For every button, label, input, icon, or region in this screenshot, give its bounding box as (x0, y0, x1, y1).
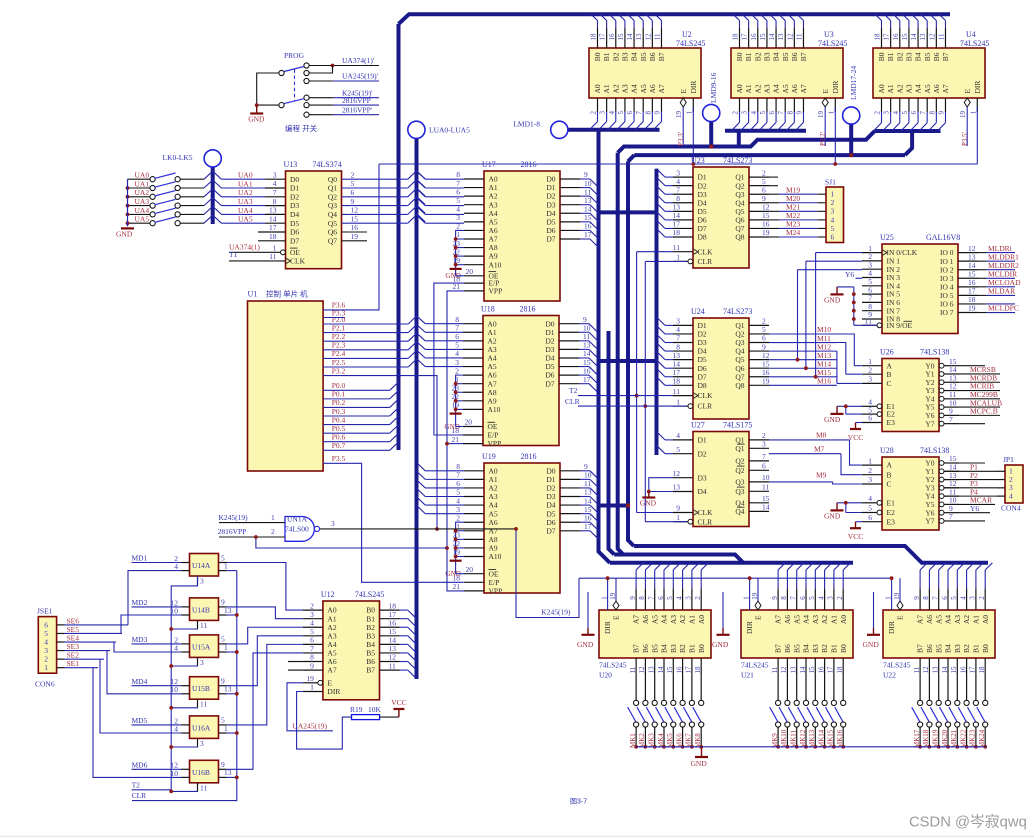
svg-text:2816VPP': 2816VPP' (342, 106, 373, 115)
svg-text:A0: A0 (593, 84, 602, 93)
svg-text:14: 14 (626, 33, 634, 41)
svg-text:19: 19 (968, 304, 976, 313)
bus: sweep bottom to U20/U21 (610, 561, 853, 565)
svg-text:15: 15 (666, 666, 674, 674)
svg-text:Q2: Q2 (735, 466, 744, 475)
svg-text:U15B: U15B (192, 684, 210, 693)
svg-text:6: 6 (831, 232, 835, 241)
svg-text:74LS245: 74LS245 (599, 661, 627, 670)
svg-text:C: C (887, 379, 892, 388)
bus: U23/U24/U27 data fan vertical (655, 169, 659, 455)
svg-text:B4: B4 (944, 644, 953, 653)
svg-text:3: 3 (969, 596, 977, 600)
svg-text:CLK: CLK (290, 257, 306, 266)
svg-text:18: 18 (978, 666, 986, 674)
svg-text:A2: A2 (753, 84, 762, 93)
pin stubs D6 D7 of U13 (258, 231, 286, 233)
bus: V2 vertical (U18 data) (609, 331, 615, 555)
bus: LMD9-16 drop (709, 121, 713, 147)
node LMD1-8 (551, 121, 568, 138)
svg-text:UA1: UA1 (135, 179, 150, 188)
svg-text:19: 19 (609, 592, 617, 600)
svg-text:MK10: MK10 (780, 729, 788, 748)
svg-text:21: 21 (452, 435, 460, 444)
flip-flop U14A (174, 553, 228, 585)
svg-text:LK0-LK5: LK0-LK5 (163, 153, 193, 162)
svg-text:12: 12 (780, 666, 788, 674)
wires P0.0-P0.7 into P0 bus (323, 389, 390, 391)
svg-text:11: 11 (200, 700, 207, 709)
svg-text:MK23: MK23 (969, 729, 977, 748)
svg-text:R19: R19 (350, 705, 363, 714)
memory U18 2816 (452, 305, 591, 449)
svg-text:74LS245: 74LS245 (355, 590, 384, 599)
svg-text:74LS175: 74LS175 (723, 421, 752, 430)
svg-text:6: 6 (657, 596, 665, 600)
svg-text:14: 14 (269, 214, 277, 223)
bus: vertical P0 data bus (left) (397, 24, 401, 450)
svg-text:PROG: PROG (284, 51, 305, 60)
svg-text:Q3: Q3 (735, 487, 744, 496)
bus: LUA address bus vertical (415, 138, 419, 679)
svg-text:13: 13 (269, 206, 277, 215)
svg-text:18: 18 (590, 33, 598, 41)
transceiver U3 74LS245 (731, 14, 843, 146)
svg-text:MK19: MK19 (932, 729, 940, 748)
svg-text:U25: U25 (880, 233, 894, 242)
svg-text:MK17: MK17 (913, 729, 921, 748)
svg-text:E: E (963, 89, 972, 94)
svg-text:U14A: U14A (192, 561, 211, 570)
svg-text:A10: A10 (489, 552, 502, 561)
svg-text:A6: A6 (932, 84, 941, 93)
svg-text:D7: D7 (545, 379, 554, 388)
svg-text:7: 7 (635, 111, 643, 115)
svg-text:U19: U19 (482, 452, 496, 461)
svg-text:B3: B3 (811, 644, 820, 653)
svg-text:8: 8 (273, 197, 277, 206)
svg-text:7: 7 (949, 512, 953, 521)
svg-text:2: 2 (874, 111, 882, 115)
svg-text:19: 19 (306, 674, 314, 683)
bus: tie LMD1-8 to U23 fan (599, 210, 657, 214)
svg-text:A7: A7 (632, 615, 641, 624)
svg-text:3: 3 (200, 658, 204, 667)
svg-text:A6: A6 (783, 615, 792, 624)
wires: SE lines up to flip-flop preset pins (128, 571, 182, 625)
svg-text:VPP: VPP (489, 587, 503, 596)
svg-text:B6: B6 (932, 52, 941, 61)
svg-text:UA4: UA4 (135, 206, 150, 215)
svg-text:Y7: Y7 (925, 419, 934, 428)
svg-text:3: 3 (762, 440, 766, 449)
svg-text:GND: GND (577, 640, 594, 649)
svg-text:5: 5 (759, 111, 767, 115)
svg-text:LMD17-24: LMD17-24 (849, 66, 858, 100)
svg-text:4: 4 (675, 596, 683, 600)
svg-text:3: 3 (599, 111, 607, 115)
svg-text:P3.3': P3.3' (677, 132, 685, 146)
svg-text:CLR: CLR (698, 402, 713, 411)
svg-text:D4: D4 (698, 487, 707, 496)
wires: U4 A pins to LMD17-24 bus (881, 112, 883, 123)
svg-text:DIR: DIR (327, 687, 340, 696)
svg-text:U2: U2 (682, 30, 692, 39)
svg-text:MK2: MK2 (638, 733, 646, 748)
svg-text:UA2: UA2 (238, 188, 253, 197)
svg-text:GND: GND (248, 115, 265, 124)
svg-text:DIR: DIR (973, 81, 982, 94)
svg-text:MK8: MK8 (694, 733, 702, 748)
wire: 2816VPP net to VPP chain (256, 538, 447, 548)
svg-text:4: 4 (676, 431, 680, 440)
svg-text:7: 7 (762, 452, 766, 461)
svg-text:74LS273: 74LS273 (723, 307, 752, 316)
svg-text:3: 3 (331, 519, 335, 528)
svg-text:E1: E1 (887, 498, 896, 507)
svg-text:DIR: DIR (603, 621, 612, 634)
svg-text:MK11: MK11 (790, 729, 798, 748)
svg-text:UA245(19): UA245(19) (292, 721, 327, 730)
svg-text:11: 11 (937, 33, 945, 40)
node LUA0-LUA5 (408, 121, 425, 138)
svg-text:A6: A6 (641, 615, 650, 624)
wires: U25 IO outputs with red labels (978, 252, 986, 254)
svg-text:A10: A10 (489, 260, 502, 269)
ground at U27 D4 (648, 492, 650, 498)
svg-text:A3: A3 (953, 615, 962, 624)
svg-text:74LS245: 74LS245 (960, 39, 989, 48)
bus: U4 drop to LMD17-24 bus (905, 131, 912, 155)
svg-text:B4: B4 (802, 644, 811, 653)
svg-text:11: 11 (913, 666, 921, 673)
svg-text:A3: A3 (811, 615, 820, 624)
bus: LK switch bus vertical (211, 166, 215, 224)
svg-text:B4: B4 (914, 52, 923, 61)
svg-text:2816VPP: 2816VPP (342, 96, 371, 105)
wire: K245 net along U20 U21 U22 E/DIR (579, 577, 892, 579)
svg-text:MCLDPC: MCLDPC (988, 304, 1019, 313)
svg-text:B: B (887, 470, 892, 479)
svg-text:15: 15 (759, 33, 767, 41)
svg-text:GND: GND (691, 759, 708, 768)
wire P3.6 to DIR net (323, 164, 379, 310)
svg-text:U1: U1 (248, 290, 258, 299)
svg-text:74LS138: 74LS138 (920, 446, 949, 455)
svg-text:11: 11 (200, 783, 207, 792)
svg-text:Q6: Q6 (328, 228, 337, 237)
svg-text:GND: GND (640, 499, 657, 508)
svg-text:D7: D7 (546, 526, 555, 535)
svg-text:3: 3 (883, 111, 891, 115)
svg-text:P3.5': P3.5' (961, 132, 969, 146)
svg-text:6: 6 (799, 596, 807, 600)
svg-text:M16: M16 (817, 377, 831, 386)
svg-text:GND: GND (712, 640, 729, 649)
svg-text:MK7: MK7 (685, 733, 693, 748)
svg-text:DIR: DIR (831, 81, 840, 94)
svg-text:15: 15 (901, 33, 909, 41)
svg-text:2816: 2816 (520, 160, 536, 169)
svg-text:CSDN @岑寂qwq: CSDN @岑寂qwq (909, 814, 1027, 831)
svg-text:17: 17 (741, 33, 749, 41)
svg-text:A7: A7 (327, 666, 336, 675)
svg-text:74LS374: 74LS374 (312, 160, 341, 169)
svg-text:3: 3 (868, 375, 872, 384)
wire: DIR net P3.6 long horizontal (379, 163, 978, 165)
wires: U25 IN0-IN2 from M13 M14 M15 (816, 252, 862, 254)
svg-text:8: 8 (638, 596, 646, 600)
svg-text:B1: B1 (972, 644, 981, 653)
bus: V3 vertical (628, 155, 634, 161)
wire: U12 E to UA245 label (287, 683, 333, 731)
svg-text:E: E (896, 615, 905, 620)
svg-text:U16A: U16A (192, 723, 211, 732)
svg-text:7: 7 (919, 111, 927, 115)
svg-text:14: 14 (910, 33, 918, 41)
ground at LK bank (121, 227, 134, 229)
T2 clock chain for flip-flops (132, 576, 198, 790)
svg-text:2: 2 (978, 596, 986, 600)
svg-text:OE: OE (488, 422, 498, 431)
svg-text:19: 19 (817, 111, 825, 119)
svg-text:A6: A6 (790, 84, 799, 93)
svg-text:19: 19 (959, 111, 967, 119)
svg-text:U4: U4 (966, 30, 976, 39)
wire: UN1A output K245(19)-prime net (320, 528, 516, 530)
svg-text:MK4: MK4 (657, 733, 665, 748)
svg-text:15: 15 (808, 666, 816, 674)
bus: sweep top to U22 (634, 546, 988, 563)
wires: U3 A pins to LMD9-16 bus (739, 112, 741, 122)
svg-text:2816VPP: 2816VPP (218, 527, 247, 536)
svg-text:74LS273: 74LS273 (723, 156, 752, 165)
svg-text:MD5: MD5 (132, 716, 148, 725)
svg-text:B6: B6 (925, 644, 934, 653)
svg-text:4: 4 (892, 111, 900, 115)
svg-text:74LS245: 74LS245 (676, 39, 705, 48)
svg-text:7: 7 (790, 596, 798, 600)
svg-text:MK3: MK3 (648, 733, 656, 748)
svg-text:11: 11 (771, 666, 779, 673)
wire: CLK chain vertical T2 net (636, 252, 638, 513)
svg-text:B2: B2 (962, 644, 971, 653)
svg-text:E: E (754, 615, 763, 620)
svg-text:14: 14 (941, 666, 949, 674)
svg-text:JP1: JP1 (1003, 455, 1014, 464)
bus: LMD1-8 horizontal + drop V1 (568, 128, 660, 132)
svg-text:74LS245: 74LS245 (741, 661, 769, 670)
svg-text:20: 20 (466, 565, 474, 574)
svg-text:A4: A4 (802, 615, 811, 624)
svg-text:E2: E2 (887, 508, 896, 517)
svg-text:B7: B7 (657, 52, 666, 61)
svg-text:9: 9 (629, 596, 637, 600)
svg-text:UA245(19)': UA245(19)' (342, 72, 379, 81)
transceiver U20 74LS245 (599, 563, 711, 749)
svg-text:6: 6 (941, 596, 949, 600)
svg-text:17: 17 (827, 666, 835, 674)
transceiver U2 74LS245 (589, 14, 701, 146)
transceiver U21 74LS245 (741, 563, 853, 749)
svg-text:MK9: MK9 (771, 733, 779, 748)
svg-text:Q0: Q0 (328, 175, 337, 184)
svg-text:74LS245: 74LS245 (883, 661, 911, 670)
svg-text:Y7: Y7 (925, 517, 934, 526)
svg-text:D2: D2 (290, 192, 299, 201)
flip-flop U14B (171, 598, 232, 630)
svg-text:16: 16 (892, 33, 900, 41)
svg-text:GND: GND (824, 512, 841, 521)
svg-text:1: 1 (742, 596, 750, 600)
svg-text:UN1A: UN1A (287, 515, 308, 524)
svg-text:B7: B7 (774, 644, 783, 653)
svg-text:D3: D3 (290, 201, 299, 210)
svg-text:19: 19 (893, 592, 901, 600)
svg-text:D7: D7 (546, 235, 555, 244)
svg-text:6: 6 (868, 513, 872, 522)
svg-text:17: 17 (599, 33, 607, 41)
strike on OE of U25 pin11 (904, 320, 913, 322)
svg-text:B1: B1 (602, 52, 611, 61)
svg-text:A1: A1 (830, 615, 839, 624)
wires: M10 M11 M12 to U26 ABC (837, 334, 854, 366)
svg-text:13: 13 (790, 666, 798, 674)
register U24 74LS273 (673, 307, 770, 419)
register U23 74LS273 (673, 156, 770, 268)
svg-text:16: 16 (817, 666, 825, 674)
svg-text:A1: A1 (744, 84, 753, 93)
svg-text:11: 11 (865, 317, 872, 326)
svg-text:控制 单片 机: 控制 单片 机 (266, 289, 308, 299)
svg-text:4: 4 (1009, 492, 1013, 501)
svg-text:E: E (679, 89, 688, 94)
svg-text:T2: T2 (569, 386, 578, 395)
svg-text:B0: B0 (981, 644, 990, 653)
svg-text:7: 7 (949, 415, 953, 424)
svg-text:K245(19): K245(19) (541, 608, 571, 617)
svg-text:A0: A0 (877, 84, 886, 93)
svg-text:IN 9/OE: IN 9/OE (887, 321, 913, 330)
svg-text:A5: A5 (781, 84, 790, 93)
svg-text:A7: A7 (799, 84, 808, 93)
svg-text:12: 12 (786, 33, 794, 41)
svg-text:CLR: CLR (698, 517, 713, 526)
wire P3.5 to U19 E/P (323, 463, 464, 582)
svg-text:Q2: Q2 (328, 192, 337, 201)
svg-text:1: 1 (676, 513, 680, 522)
svg-text:B2: B2 (611, 52, 620, 61)
svg-text:13: 13 (932, 666, 940, 674)
svg-text:B: B (887, 370, 892, 379)
memory U19 2816 (453, 452, 592, 596)
svg-text:U20: U20 (599, 671, 612, 680)
svg-text:6: 6 (351, 188, 355, 197)
svg-text:P3.2': P3.2' (819, 132, 827, 146)
svg-text:1: 1 (600, 596, 608, 600)
svg-text:B7: B7 (366, 666, 375, 675)
svg-text:74LS245: 74LS245 (818, 39, 847, 48)
svg-text:16: 16 (675, 666, 683, 674)
svg-text:B6: B6 (783, 644, 792, 653)
svg-text:1: 1 (827, 111, 835, 115)
svg-text:MK22: MK22 (959, 729, 967, 748)
wire: E/P chain U17-U18 (434, 283, 464, 435)
svg-text:74LS00: 74LS00 (285, 525, 309, 534)
svg-text:12: 12 (351, 206, 359, 215)
svg-text:D1: D1 (290, 184, 299, 193)
svg-text:U16B: U16B (192, 768, 210, 777)
bus: tie V1 to V3 (599, 504, 629, 508)
wires: U27 outputs M8 M7 M9 to U28 ABC (769, 439, 850, 441)
svg-text:MD2: MD2 (132, 598, 148, 607)
svg-text:5: 5 (901, 111, 909, 115)
svg-text:CLK: CLK (698, 508, 714, 517)
svg-text:DIR: DIR (689, 81, 698, 94)
svg-text:18: 18 (732, 33, 740, 41)
wire P3.2 down to NAND output junction (323, 376, 437, 529)
svg-text:B0: B0 (735, 52, 744, 61)
wire R19 to VCC (380, 716, 399, 718)
svg-text:GND: GND (824, 415, 841, 424)
CLR chain for flip-flops (227, 570, 237, 572)
svg-text:GND: GND (863, 640, 880, 649)
svg-text:9: 9 (653, 111, 661, 115)
svg-text:7: 7 (273, 188, 277, 197)
svg-text:A1: A1 (886, 84, 895, 93)
svg-text:7: 7 (932, 596, 940, 600)
svg-text:U15A: U15A (192, 642, 211, 651)
svg-text:B2: B2 (820, 644, 829, 653)
svg-text:15: 15 (617, 33, 625, 41)
svg-text:B1: B1 (886, 52, 895, 61)
svg-text:CLK: CLK (698, 247, 714, 256)
svg-text:6: 6 (768, 111, 776, 115)
wires and labels M10-M16 at U24 outputs (769, 333, 837, 335)
svg-text:5: 5 (676, 445, 680, 454)
svg-text:A4: A4 (944, 615, 953, 624)
svg-text:A4: A4 (660, 615, 669, 624)
svg-text:A7: A7 (916, 615, 925, 624)
svg-text:Y6: Y6 (970, 504, 979, 513)
svg-text:OE: OE (489, 569, 499, 578)
svg-text:19: 19 (762, 228, 770, 237)
bus: top memory data bus (399, 14, 951, 24)
svg-text:11: 11 (269, 252, 276, 261)
vcc at R19 (398, 709, 400, 717)
svg-text:A2: A2 (678, 615, 687, 624)
svg-text:M9: M9 (816, 470, 827, 479)
svg-text:A7: A7 (941, 84, 950, 93)
svg-text:M8: M8 (816, 431, 827, 440)
svg-text:A6: A6 (925, 615, 934, 624)
svg-text:U28: U28 (880, 446, 894, 455)
svg-text:B5: B5 (923, 52, 932, 61)
svg-text:U26: U26 (880, 348, 894, 357)
wires: flip-flop outputs to U12 A inputs (227, 563, 303, 611)
svg-text:15: 15 (950, 666, 958, 674)
svg-text:MCPC.B: MCPC.B (970, 407, 998, 416)
svg-text:B3: B3 (905, 52, 914, 61)
svg-text:3: 3 (685, 596, 693, 600)
svg-text:18: 18 (269, 232, 277, 241)
flip-flop U16B (171, 760, 232, 792)
svg-text:A5: A5 (934, 615, 943, 624)
transceiver U12 74LS245 (303, 590, 400, 700)
ground at U25 inputs (836, 287, 838, 295)
svg-text:GND: GND (824, 296, 841, 305)
svg-text:17: 17 (969, 666, 977, 674)
